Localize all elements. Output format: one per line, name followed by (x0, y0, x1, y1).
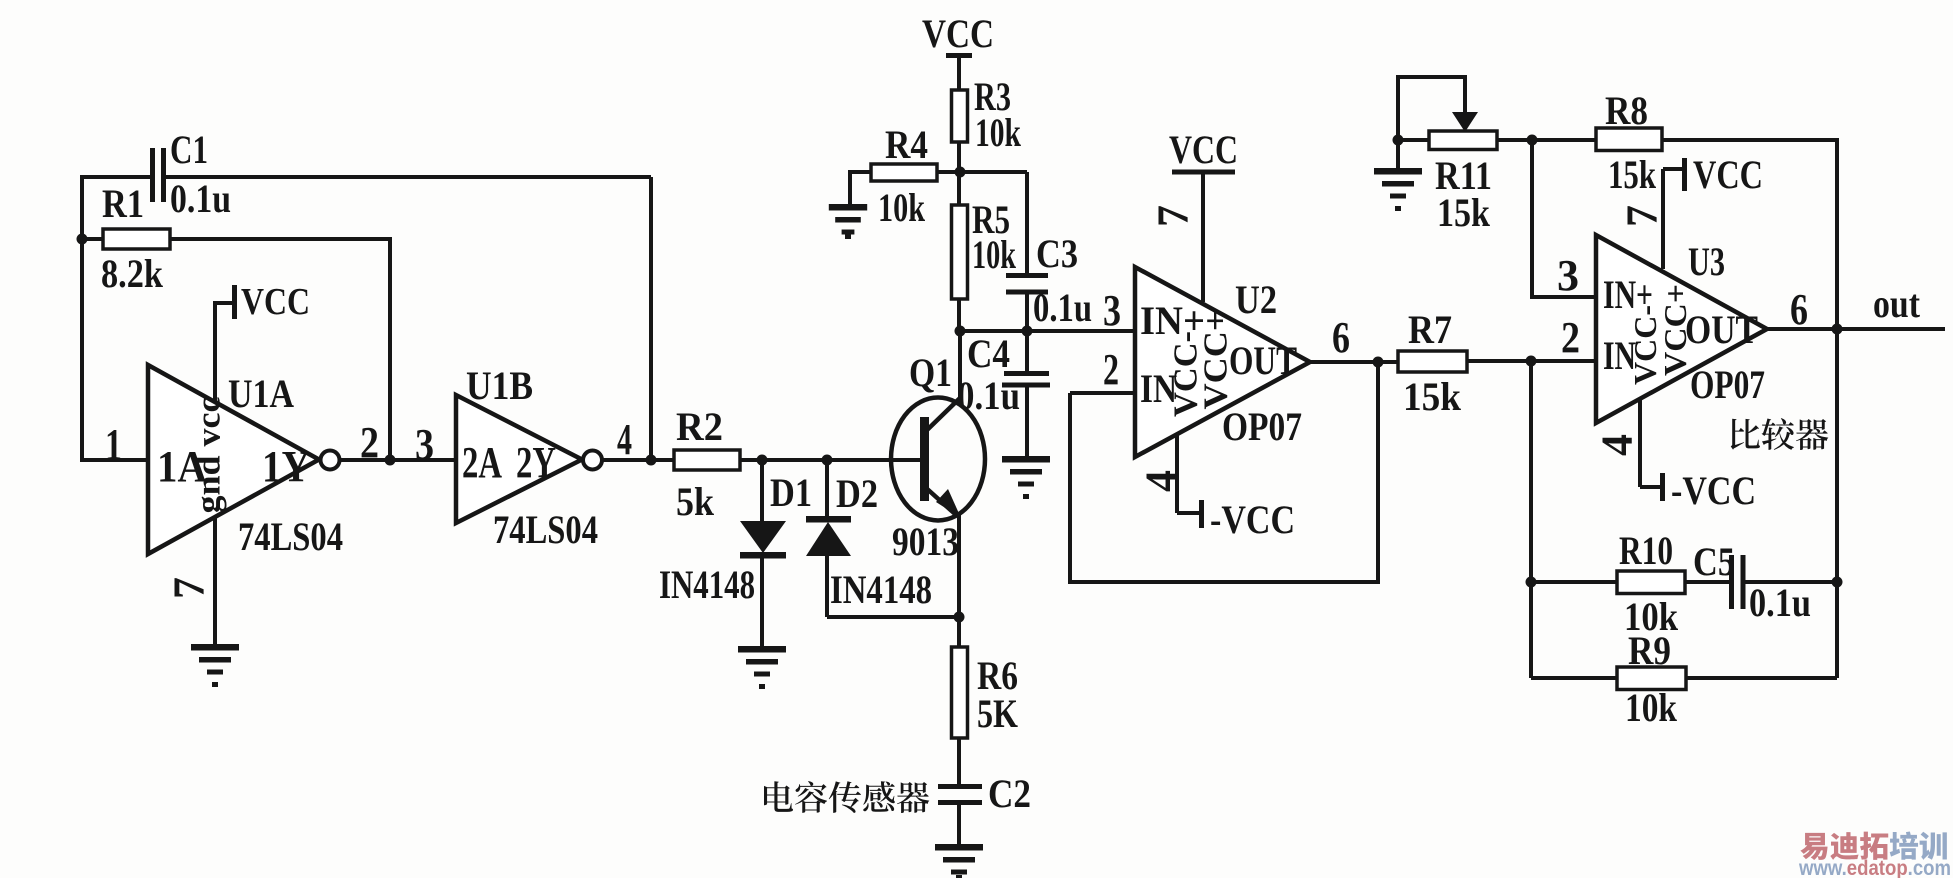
svg-text:2: 2 (360, 418, 379, 467)
capacitor C4 (1025, 331, 1029, 371)
node U2 output junction (1373, 357, 1384, 368)
wire junction to U3 pin3 (1532, 140, 1596, 297)
svg-text:1: 1 (105, 420, 122, 469)
wire left feedback vertical (1529, 361, 1533, 678)
node R11 R8 junction (1527, 135, 1538, 146)
node R10 left junction (1526, 577, 1537, 588)
diode D1 (760, 460, 764, 523)
node U1A output junction pin2 (385, 455, 396, 466)
ground C2 (935, 844, 983, 851)
wire U3 output to out (1767, 327, 1945, 331)
inverter U1A (148, 365, 319, 554)
svg-text:0.1u: 0.1u (170, 176, 231, 221)
svg-text:R4: R4 (885, 122, 928, 167)
node output junction (1832, 324, 1843, 335)
svg-text:3: 3 (1557, 251, 1579, 300)
resistor R7 (1398, 351, 1467, 372)
watermark logo yiditow (1800, 833, 1827, 860)
svg-text:2A: 2A (462, 438, 502, 487)
node R3 R4 R5 junction (955, 167, 966, 178)
svg-text:10k: 10k (878, 185, 926, 230)
wire right feedback vertical (1835, 329, 1839, 678)
U2 VCC bar (1172, 170, 1235, 175)
node D2 junction (822, 455, 833, 466)
svg-text:U1A: U1A (228, 371, 294, 416)
svg-text:2Y: 2Y (516, 438, 556, 487)
svg-text:0.1u: 0.1u (957, 373, 1020, 418)
svg-text:C3: C3 (1036, 231, 1078, 276)
svg-text:2: 2 (1103, 345, 1119, 394)
svg-text:10k: 10k (1625, 685, 1678, 730)
ground C4 (1002, 456, 1050, 463)
svg-text:6: 6 (1790, 285, 1808, 334)
wire U1B output pin4 (602, 458, 674, 462)
U3 VCC stub (1663, 167, 1683, 171)
svg-text:7: 7 (1618, 205, 1667, 227)
node R1 left junction (77, 234, 88, 245)
ground R11 (1374, 168, 1422, 175)
svg-text:D1: D1 (770, 470, 812, 515)
svg-text:6: 6 (1332, 313, 1350, 362)
wire VCC to R3 (957, 57, 961, 90)
wire collector from node (958, 331, 962, 400)
wire C1 top to pin4 junction vertical (649, 177, 653, 460)
svg-text:VCC+: VCC+ (1198, 311, 1235, 410)
svg-text:R7: R7 (1408, 307, 1452, 352)
transistor Q1 (891, 398, 985, 521)
node pin4 junction (646, 455, 657, 466)
svg-text:OUT: OUT (1685, 307, 1758, 352)
VCC stub for U1A (215, 301, 233, 305)
svg-text:out: out (1873, 281, 1921, 326)
svg-text:VCC: VCC (1169, 127, 1238, 172)
svg-text:U1B: U1B (466, 363, 533, 408)
svg-text:gnd vcc: gnd vcc (191, 397, 228, 514)
svg-text:R2: R2 (676, 404, 723, 449)
capacitor C5 (1729, 555, 1734, 609)
wire U1A output to U1B (339, 458, 456, 462)
U2 pin 7 wire (1201, 174, 1205, 302)
svg-text:1Y: 1Y (262, 442, 310, 491)
U1A pin 7 wire (213, 517, 217, 644)
svg-text:IN4148: IN4148 (659, 562, 755, 607)
svg-text:-VCC: -VCC (1210, 497, 1295, 542)
svg-text:C1: C1 (170, 127, 208, 172)
svg-text:OUT: OUT (1229, 338, 1297, 383)
svg-text:8.2k: 8.2k (101, 251, 164, 296)
ground U1A (191, 644, 239, 651)
svg-text:74LS04: 74LS04 (238, 514, 343, 559)
svg-text:VCC: VCC (1693, 152, 1763, 197)
node emitter junction (954, 612, 965, 623)
U3 pin 4 wire (1638, 399, 1642, 487)
wire U2 feedback loop (1070, 362, 1378, 582)
svg-text:4: 4 (1593, 434, 1642, 456)
svg-text:R8: R8 (1605, 88, 1648, 133)
ground R4 (829, 204, 867, 211)
svg-text:C5: C5 (1693, 539, 1735, 584)
svg-text:D2: D2 (836, 471, 878, 516)
node R5 bottom junction (955, 326, 966, 337)
U2 pin 4 wire (1175, 434, 1179, 513)
svg-text:C4: C4 (967, 331, 1010, 376)
op-amp U2 (1135, 267, 1310, 457)
op-amp U3 (1596, 235, 1767, 423)
svg-text:4: 4 (1137, 470, 1186, 492)
svg-text:4: 4 (617, 415, 632, 464)
resistor R8 (1596, 128, 1662, 151)
comparator label bijiaoqi (1731, 419, 1760, 450)
svg-text:15k: 15k (1608, 152, 1657, 197)
svg-text:Q1: Q1 (909, 350, 952, 395)
resistor R10 (1531, 580, 1617, 584)
resistor R4 (850, 170, 871, 174)
capacitor C2 (938, 784, 982, 789)
resistor R1 (82, 237, 103, 241)
svg-text:74LS04: 74LS04 (493, 507, 598, 552)
ground D1 (738, 646, 786, 653)
svg-text:5K: 5K (977, 691, 1018, 736)
resistor R2 (674, 450, 740, 470)
svg-text:7: 7 (1149, 205, 1198, 227)
svg-text:R9: R9 (1628, 628, 1671, 673)
resistor R5 (957, 172, 961, 205)
capacitor C3 (1006, 273, 1048, 278)
svg-text:VCC: VCC (922, 11, 994, 56)
wire R8 right down to output (1835, 138, 1839, 329)
svg-text:R1: R1 (102, 181, 144, 226)
svg-text:U2: U2 (1235, 277, 1277, 322)
wire R4 left down to ground (848, 170, 852, 204)
wire top feedback from C1 to pin4 node (166, 175, 651, 179)
svg-text:U3: U3 (1688, 239, 1725, 284)
svg-text:0.1u: 0.1u (1033, 285, 1092, 330)
svg-text:10k: 10k (972, 232, 1017, 277)
sensor label dianrong chuanganqi (764, 781, 793, 812)
svg-text:0.1u: 0.1u (1749, 580, 1811, 625)
svg-text:3: 3 (1103, 286, 1121, 335)
node D1 junction (757, 455, 768, 466)
wire node to U2 pin3 (959, 329, 1135, 333)
svg-text:OP07: OP07 (1222, 404, 1302, 449)
capacitor C1 (150, 148, 155, 202)
inverter U1B (456, 395, 582, 523)
svg-text:7: 7 (165, 577, 214, 599)
svg-text:-VCC: -VCC (1671, 468, 1756, 513)
svg-text:VCC: VCC (241, 281, 310, 323)
wire D2 anode to emitter node (827, 615, 959, 619)
node R11 left junction (1393, 135, 1404, 146)
svg-text:15k: 15k (1437, 190, 1491, 235)
node R7 right junction (1526, 356, 1537, 367)
svg-text:C2: C2 (988, 771, 1031, 816)
svg-text:R10: R10 (1619, 528, 1673, 573)
svg-text:5k: 5k (676, 479, 715, 524)
wire R11 left to ground (1396, 140, 1400, 168)
svg-text:www.edatop.com: www.edatop.com (1798, 857, 1951, 878)
VCC bar top (946, 53, 972, 58)
diode D2 (825, 460, 829, 518)
svg-text:10k: 10k (975, 110, 1022, 155)
svg-text:IN4148: IN4148 (830, 567, 932, 612)
wire U2 output (1310, 360, 1398, 364)
svg-text:2: 2 (1561, 313, 1580, 362)
resistor R6 (957, 617, 961, 647)
svg-text:3: 3 (415, 420, 434, 469)
wire left vertical from C1 to U1A input (80, 175, 84, 462)
resistor R3 (952, 90, 968, 142)
wire U2 pin2 input (1070, 391, 1135, 395)
wire U1A input pin1 (82, 458, 148, 462)
potentiometer R11 (1398, 138, 1429, 142)
wire C3 branch down (1025, 172, 1029, 273)
node C5 right junction (1832, 577, 1843, 588)
svg-text:9013: 9013 (892, 519, 959, 564)
wire R1 right vertical to pin2 node (388, 237, 392, 460)
svg-text:VCC+: VCC+ (1657, 284, 1693, 376)
svg-text:15k: 15k (1403, 374, 1462, 419)
svg-text:OP07: OP07 (1690, 362, 1765, 407)
resistor R9 (1531, 676, 1617, 680)
node C3 bottom junction (1022, 326, 1033, 337)
